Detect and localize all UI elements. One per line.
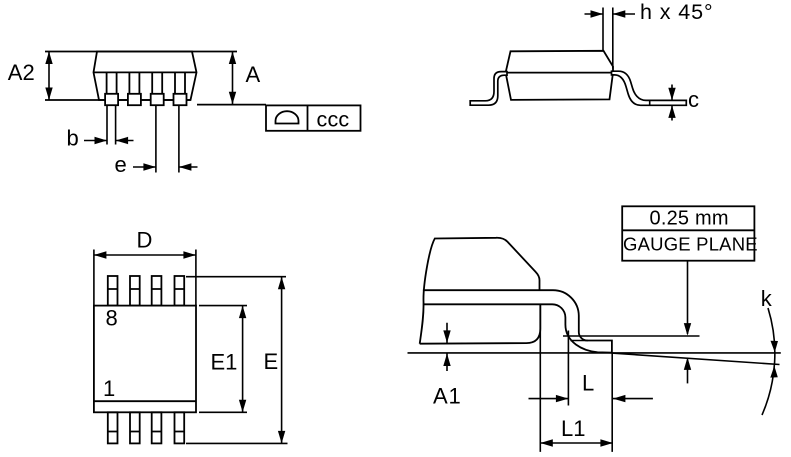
pin 5 top	[175, 276, 185, 306]
body cutaway lower outline	[420, 304, 541, 343]
dimension c	[671, 85, 673, 121]
svg-text:L: L	[582, 371, 594, 396]
dimension E1	[199, 306, 247, 413]
top view body	[94, 306, 196, 413]
bottom seating line left	[45, 99, 191, 101]
lead 3 foot	[151, 94, 164, 105]
svg-text:h x 45°: h x 45°	[640, 0, 713, 24]
pin 7 top	[130, 276, 140, 306]
lead through body and gull-wing bend	[423, 290, 612, 353]
pin 6 top	[152, 276, 162, 306]
dimension A1	[446, 323, 448, 371]
foot plane tilted line	[612, 353, 780, 364]
bottom line right to ccc box	[197, 104, 266, 106]
pin bend ticks bottom	[108, 431, 184, 433]
pin 4 bottom	[175, 412, 185, 443]
body bottom inner line	[94, 400, 196, 402]
dimension A	[232, 52, 234, 105]
svg-text:8: 8	[106, 306, 118, 331]
dimension h x 45	[585, 8, 636, 69]
svg-text:e: e	[115, 152, 127, 177]
lead 3 front	[152, 72, 162, 93]
svg-text:A2: A2	[8, 60, 35, 85]
right foot tick	[649, 100, 651, 105]
body parting line side	[506, 72, 613, 74]
body parting line	[94, 71, 197, 73]
lead 2 foot	[128, 94, 141, 105]
pin 8 top	[108, 276, 118, 306]
svg-text:b: b	[67, 126, 79, 151]
k angle arc	[762, 308, 775, 415]
svg-text:1: 1	[103, 376, 115, 401]
L1 extension line	[539, 304, 541, 452]
top extension line	[45, 51, 237, 53]
lead 1 front	[107, 72, 117, 93]
svg-text:GAUGE PLANE: GAUGE PLANE	[623, 234, 758, 255]
pin 2 bottom	[130, 412, 140, 443]
lead 4 foot	[174, 94, 187, 105]
svg-text:A: A	[246, 62, 261, 87]
right gull-wing lead	[612, 71, 687, 105]
lead 2 front	[129, 72, 139, 93]
L extension lines	[568, 331, 612, 452]
svg-text:L1: L1	[561, 416, 585, 441]
foot top line extension	[571, 340, 589, 342]
flatness symbol	[276, 111, 299, 123]
ccc flatness frame	[266, 105, 361, 130]
svg-text:k: k	[761, 286, 773, 311]
left gull-wing lead	[470, 72, 507, 106]
dimension L	[529, 398, 653, 400]
svg-text:E: E	[264, 349, 279, 374]
pin bend ticks top	[108, 288, 184, 290]
pin 1 bottom	[108, 412, 118, 443]
dimension D	[94, 250, 196, 306]
seating plane line	[408, 352, 781, 354]
dimension A2	[48, 52, 50, 101]
dimension e	[133, 105, 198, 172]
svg-text:ccc: ccc	[317, 107, 350, 131]
svg-text:A1: A1	[433, 384, 462, 409]
svg-text:E1: E1	[211, 350, 238, 375]
package body side	[506, 51, 613, 100]
package body front	[94, 52, 197, 101]
pin 3 bottom	[152, 412, 162, 443]
svg-text:D: D	[137, 228, 153, 253]
dimension E	[186, 277, 288, 444]
dimension b	[84, 105, 134, 144]
lead 1 foot	[105, 94, 118, 105]
gauge plane line	[563, 335, 700, 337]
gauge plane leader	[687, 261, 689, 384]
body cutaway upper outline	[420, 238, 540, 344]
dimension L1	[540, 442, 613, 444]
svg-text:c: c	[688, 87, 699, 112]
gauge plane frame	[622, 206, 754, 260]
lead 4 front	[175, 72, 185, 93]
svg-text:0.25 mm: 0.25 mm	[650, 208, 729, 230]
